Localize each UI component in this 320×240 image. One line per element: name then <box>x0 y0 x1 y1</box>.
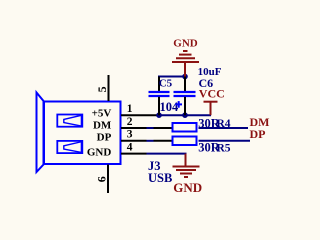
R5 body <box>173 137 197 146</box>
svg-text:GND: GND <box>87 147 112 159</box>
svg-text:USB: USB <box>148 171 172 185</box>
wire pin4 to gnd <box>147 153 187 155</box>
C5 bottom lead <box>158 97 160 115</box>
pin 2 (DM) <box>93 116 172 132</box>
svg-text:2: 2 <box>127 116 133 128</box>
svg-text:1: 1 <box>127 103 133 115</box>
vcc bar <box>204 101 218 103</box>
power port GND top <box>172 37 199 76</box>
usb icon lower rect <box>57 141 82 153</box>
svg-text:10uF: 10uF <box>198 66 222 78</box>
C6 plates <box>174 91 196 93</box>
C5 plates <box>149 91 170 93</box>
capacitor C6 polarized <box>174 66 222 115</box>
svg-text:4: 4 <box>127 141 133 153</box>
connector J3 body flag <box>37 93 44 173</box>
svg-text:DP: DP <box>250 127 266 141</box>
vcc stem <box>210 102 212 116</box>
pin 5 (shield) <box>95 75 109 101</box>
svg-text:5: 5 <box>95 86 109 92</box>
usb icon upper rect <box>57 115 82 127</box>
C6 top lead <box>184 77 186 92</box>
C6 polarity plus <box>175 103 182 105</box>
wire DP net <box>199 140 251 142</box>
power port GND bottom <box>173 154 203 195</box>
svg-text:DM: DM <box>93 120 112 132</box>
C5 top lead <box>158 77 160 92</box>
capacitor C5 <box>149 77 180 116</box>
wire DM net <box>199 127 249 129</box>
C6 bottom lead <box>184 97 186 115</box>
svg-text:GND: GND <box>173 37 198 49</box>
connector J3 body box <box>44 102 121 165</box>
svg-text:DP: DP <box>97 132 112 144</box>
svg-text:+5V: +5V <box>92 108 112 120</box>
gnd stem <box>185 154 187 167</box>
usb icon lower cone <box>64 142 82 153</box>
pin 1 (+5V) <box>92 103 157 120</box>
resistor R5 <box>173 137 231 155</box>
wire pin3 stub <box>147 140 154 142</box>
power port VCC <box>199 86 225 115</box>
svg-text:R5: R5 <box>217 142 231 154</box>
pin 6 (shield) <box>95 165 109 194</box>
node junction C6 bottom <box>182 112 188 118</box>
svg-text:C5: C5 <box>159 78 173 90</box>
wire pin2 stub <box>147 127 154 129</box>
R4 body <box>173 123 197 132</box>
resistor R4 <box>173 116 231 131</box>
svg-text:VCC: VCC <box>199 86 225 100</box>
svg-text:GND: GND <box>173 180 202 195</box>
usb icon upper cone <box>64 115 82 126</box>
node junction C5 bottom <box>156 112 162 118</box>
earth bars <box>183 50 188 52</box>
svg-text:3: 3 <box>127 129 133 141</box>
earth bars <box>173 166 200 168</box>
svg-text:104: 104 <box>160 100 180 114</box>
pin 3 (DP) <box>97 129 172 144</box>
wire cap top net <box>158 76 185 78</box>
pin 4 (GND) <box>87 141 147 158</box>
wire +5V net horizontal <box>157 114 211 116</box>
node junction cap top / gnd <box>182 74 188 80</box>
svg-text:6: 6 <box>95 176 109 182</box>
gnd stem <box>184 62 186 77</box>
